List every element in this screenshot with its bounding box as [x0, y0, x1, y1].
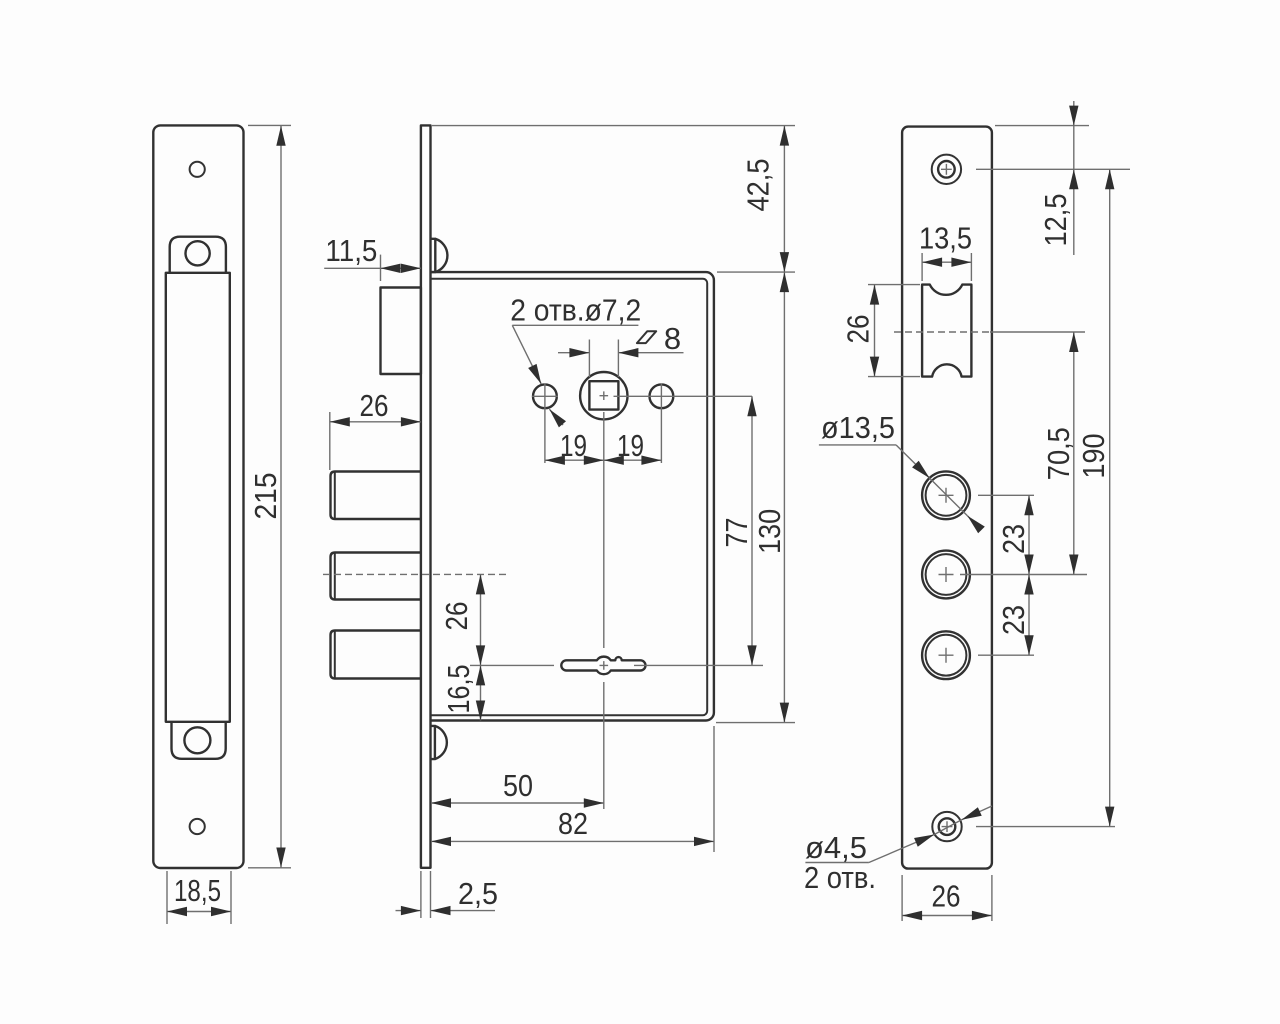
label dia 13.5 leader arrow — [896, 445, 930, 478]
bolt 1 — [331, 472, 421, 520]
big hole 3 — [922, 631, 970, 679]
dim 8 left arrow — [558, 352, 589, 354]
svg-text:42,5: 42,5 — [741, 159, 776, 212]
spindle hole circle — [580, 372, 627, 419]
dim 18.5 extension left — [166, 871, 168, 924]
vertical centerline spindle lower — [603, 682, 605, 809]
right view bottom screw cross — [942, 821, 953, 832]
middle view faceplate strip — [421, 125, 431, 867]
dim 13.5 extension left — [921, 253, 923, 281]
left view lower tab — [172, 721, 226, 759]
dim 26 bottom extension left — [901, 875, 903, 921]
right view bottom screw outer — [932, 812, 961, 841]
svg-text:190: 190 — [1076, 434, 1111, 479]
middle view bottom latch bump — [431, 726, 447, 759]
keyhole center cross — [600, 661, 609, 670]
square symbol — [637, 331, 656, 343]
vertical centerline spindle upper — [603, 412, 605, 648]
lock body outer outline — [431, 272, 714, 720]
svg-text:19: 19 — [560, 428, 587, 463]
left hole 7.2 — [533, 384, 557, 408]
dim 42.5 line — [783, 126, 785, 273]
dim 215 line — [280, 126, 282, 868]
svg-text:18,5: 18,5 — [174, 873, 221, 908]
dim 2.5 right arrow — [431, 910, 496, 912]
left view upper tab — [170, 237, 226, 274]
svg-text:23: 23 — [996, 524, 1031, 554]
dim 19 left line — [545, 459, 604, 461]
dim 26 bottom line — [902, 915, 992, 917]
dim 11.5 tail — [324, 267, 380, 269]
keyhole — [561, 657, 645, 675]
extension hole3 center — [978, 654, 1034, 656]
dim 23 lower line — [1028, 575, 1030, 656]
dim 77 line — [751, 396, 753, 665]
middle view top latch bump — [431, 239, 448, 272]
dim 23 upper line — [1028, 495, 1030, 574]
extension plate top right — [995, 125, 1089, 127]
dim 50 line — [431, 802, 604, 804]
svg-text:26: 26 — [360, 388, 389, 423]
right view plate — [902, 127, 992, 869]
dim 12.5 connector — [1073, 126, 1075, 170]
svg-text:26: 26 — [439, 602, 474, 631]
left view outer plate — [153, 125, 243, 868]
dim 26 cutout extension top — [868, 284, 920, 286]
cutout centerline extension — [990, 331, 1085, 333]
svg-text:2 отв.: 2 отв. — [804, 860, 876, 895]
dim 8 right arrow — [618, 352, 683, 354]
dim 2.5 extension left — [420, 871, 422, 918]
bolt 2 — [331, 553, 421, 600]
dim 12.5 lower arrow — [1073, 169, 1075, 255]
keyhole horizontal centerline right — [634, 664, 763, 666]
svg-text:2,5: 2,5 — [458, 876, 498, 911]
dim 190 line — [1109, 169, 1111, 826]
svg-text:ø13,5: ø13,5 — [821, 410, 895, 445]
svg-text:23: 23 — [996, 605, 1031, 635]
dim 26 cutout extension bottom — [868, 376, 920, 378]
svg-text:2 отв.ø7,2: 2 отв.ø7,2 — [510, 292, 641, 327]
label dia 4.5 leader arrow — [869, 835, 934, 863]
left view lower tab hole — [184, 727, 210, 753]
label dia 13.5 diagonal — [930, 478, 968, 516]
left view top screw hole — [190, 162, 205, 177]
cutout dashed centerline — [894, 331, 990, 333]
dim 11.5 extension — [380, 255, 382, 281]
dim 26 middle-left extension — [329, 412, 331, 470]
dim 18.5 extension right — [230, 871, 232, 924]
dim 26 middle-left line — [330, 421, 421, 423]
right view top screw outer — [932, 155, 961, 184]
dim 82 extension right — [713, 726, 715, 852]
dim 18.5 line — [167, 911, 231, 913]
svg-text:26: 26 — [932, 879, 961, 914]
dim 8 extension left — [588, 340, 590, 378]
dim 2.5 extension right — [430, 871, 432, 918]
horizontal centerline spindle — [614, 395, 753, 397]
dim 130 line — [783, 272, 785, 722]
right view top screw cross — [941, 164, 952, 175]
dim 16.5 line — [480, 665, 482, 720]
dim 215 extension bottom — [248, 867, 291, 869]
label dia 4.5 diagonal — [934, 820, 961, 835]
bolt 3 — [331, 631, 421, 679]
spindle square — [589, 381, 618, 409]
extension screw bottom center — [976, 826, 1115, 828]
keyhole horizontal centerline left — [470, 664, 554, 666]
left view upper tab hole — [186, 241, 210, 265]
svg-text:77: 77 — [719, 518, 754, 548]
svg-text:215: 215 — [248, 473, 283, 520]
svg-text:11,5: 11,5 — [325, 233, 377, 268]
svg-text:8: 8 — [664, 321, 681, 356]
middle view top block — [381, 288, 421, 375]
svg-text:12,5: 12,5 — [1038, 194, 1073, 247]
bolts dashed centerline — [323, 573, 507, 575]
dim 82 line — [431, 840, 714, 842]
dim 11.5 line — [381, 267, 421, 269]
svg-text:26: 26 — [841, 315, 876, 344]
dim 26 vertical line — [480, 574, 482, 665]
right hole 7.2 — [650, 384, 674, 408]
left view inner plate — [166, 273, 230, 722]
dim 130 extension bottom — [716, 722, 795, 724]
left hole cross — [532, 384, 558, 464]
dim 215 extension top — [248, 124, 291, 126]
dim 26 bottom extension right — [991, 875, 993, 921]
svg-text:70,5: 70,5 — [1041, 427, 1076, 480]
right hole vertical centerline — [660, 384, 662, 464]
right view bottom screw inner — [939, 818, 956, 835]
svg-text:19: 19 — [617, 428, 644, 463]
big hole 2 — [922, 551, 970, 599]
big hole 1 — [922, 471, 970, 519]
dim 8 extension right — [617, 340, 619, 378]
dim 2.5 left arrow — [396, 910, 421, 912]
dim 70.5 line — [1073, 332, 1075, 575]
svg-text:82: 82 — [558, 806, 588, 841]
svg-text:130: 130 — [752, 509, 787, 554]
label 2 otv leader arrow — [512, 325, 541, 384]
spindle center cross — [600, 391, 609, 400]
dim 13.5 line — [922, 261, 971, 263]
svg-text:50: 50 — [503, 768, 533, 803]
label 2 otv second arrow — [549, 409, 563, 425]
extension hole1 center — [978, 494, 1034, 496]
svg-text:13,5: 13,5 — [919, 221, 972, 256]
label dia 4.5 second arrow — [962, 806, 992, 820]
dim 26 cutout line — [874, 285, 876, 377]
dim 12.5 upper arrow — [1073, 101, 1075, 126]
label dia 13.5 shelf — [819, 444, 896, 446]
right view top screw inner — [938, 161, 955, 178]
extension screw top center — [976, 168, 1130, 170]
dim 42.5 extension top — [432, 125, 795, 127]
svg-text:16,5: 16,5 — [441, 665, 476, 714]
lock body inner outline — [431, 279, 708, 715]
left view bottom screw hole — [190, 819, 205, 834]
right view latch cutout — [922, 285, 971, 377]
dim 13.5 extension right — [970, 253, 972, 281]
label dia 4.5 shelf — [805, 862, 869, 864]
label 2 otv shelf — [512, 324, 638, 326]
label dia 13.5 second arrow — [967, 516, 981, 530]
extension hole2 center — [960, 574, 1087, 576]
dim 19 right line — [604, 459, 662, 461]
dim 42.5 extension bottom — [717, 271, 795, 273]
